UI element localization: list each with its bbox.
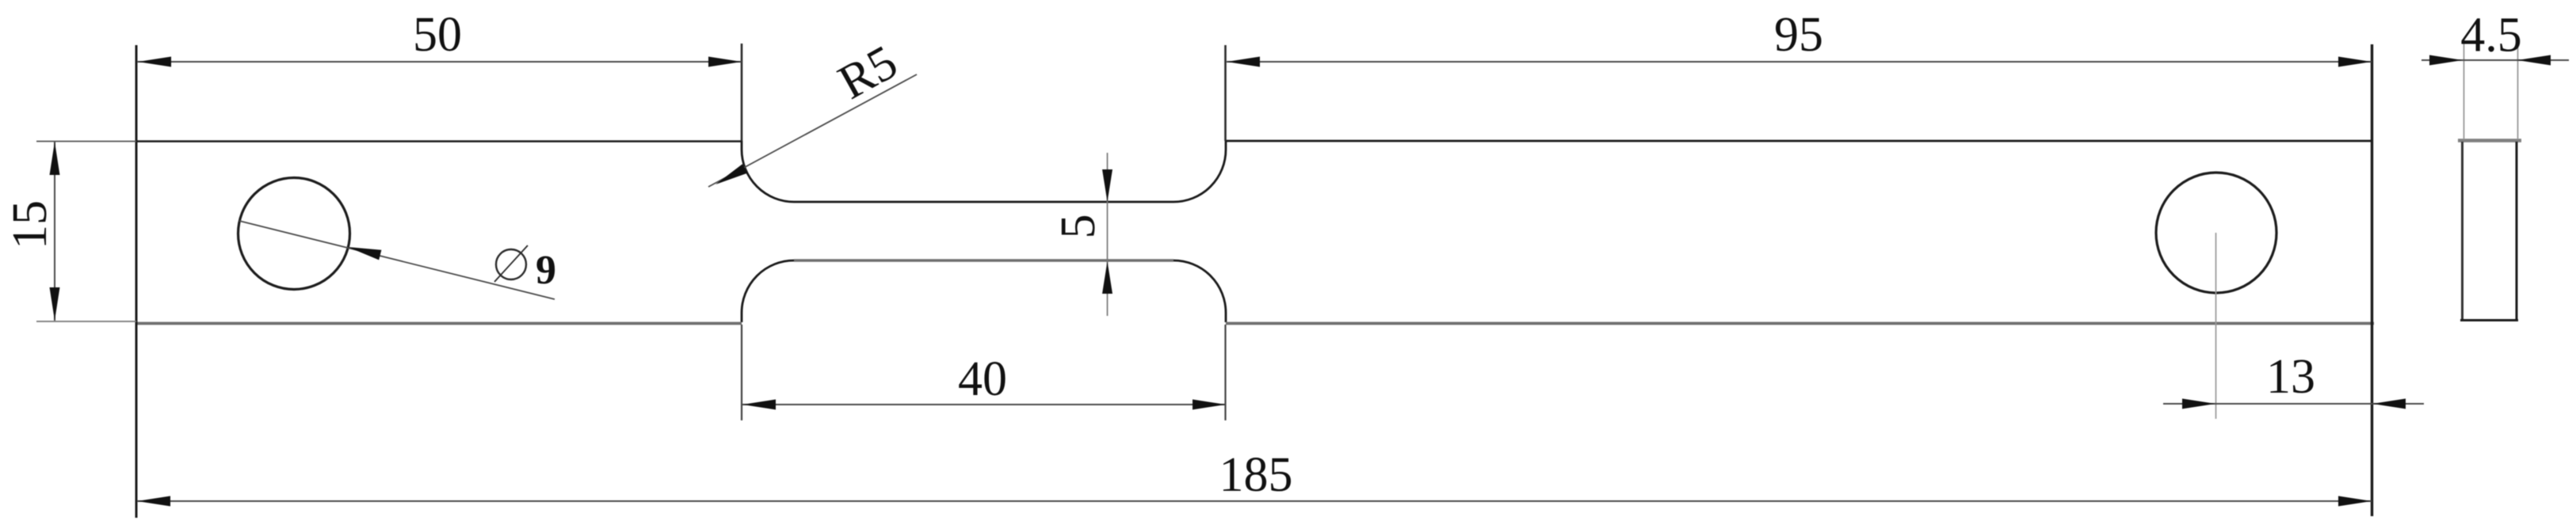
extension line at x=1547 below part (1224, 325, 1226, 420)
arrow 4.5 right (points left) (2517, 55, 2551, 66)
svg-text:50: 50 (413, 8, 462, 62)
arrow 95 right (2338, 57, 2372, 67)
svg-text:15: 15 (3, 200, 57, 249)
extension line at x=1547 above part (1224, 45, 1227, 141)
leader line R5 (708, 74, 917, 187)
hole D9 left circle (239, 178, 350, 290)
dimension line 40 (742, 404, 1226, 405)
dimension line 185 (137, 500, 2372, 502)
dimension line 4.5 (2421, 59, 2569, 61)
side view: left edge (2461, 142, 2463, 321)
label D9: diameter symbol circle (496, 249, 526, 279)
svg-text:4.5: 4.5 (2460, 9, 2522, 63)
dimension line 15 (54, 142, 55, 321)
arrow 50 left (138, 57, 171, 67)
hole right circle (2156, 173, 2276, 293)
part outline: top edge left section (136, 140, 742, 142)
arrow D9 (tip at circle edge) (348, 247, 381, 260)
arrow 13 right (points left, tip at right edge) (2372, 399, 2406, 409)
leader line D9 (239, 221, 555, 299)
part outline: right edge with extension lines (2371, 44, 2373, 516)
svg-text:9: 9 (536, 248, 556, 293)
arrow 4.5 left (points right) (2429, 55, 2463, 66)
svg-text:13: 13 (2266, 350, 2315, 404)
dimension arrows 5 (1102, 169, 1112, 202)
arrow 95 left (1227, 57, 1260, 67)
extension line for 15 top (36, 141, 136, 142)
arrow 15 down (50, 287, 60, 321)
extension line for 5 dim (1107, 153, 1109, 316)
centerline of right hole (2215, 233, 2217, 419)
extension line for 15 bottom (36, 321, 136, 322)
part outline: bottom-right fillet (1174, 260, 1226, 322)
svg-text:5: 5 (1051, 215, 1105, 239)
svg-text:95: 95 (1774, 8, 1823, 62)
part outline: bottom-left fillet (742, 260, 794, 322)
arrow R5 (tip toward fillet) (716, 164, 747, 184)
svg-text:40: 40 (958, 352, 1007, 406)
extension line 4.5 left (2463, 41, 2465, 139)
part outline: gauge bottom line (gray) (794, 259, 1174, 261)
arrow 13 left (points right, tip at centerline) (2182, 399, 2215, 409)
dimension line 13 (2163, 403, 2424, 405)
extension line at x=936 above part (741, 44, 743, 141)
dimension line 95 (1227, 61, 2372, 63)
side view: right edge (2516, 142, 2518, 321)
part outline: left shoulder, gauge top line, right shoulder, top edge right section (742, 141, 2372, 202)
arrow 185 left (137, 496, 170, 507)
extension line at x=936 below part (741, 325, 742, 420)
dimension line 50 (137, 61, 742, 63)
part outline: bottom edge right section (gray) (1226, 322, 2374, 325)
part outline: left edge with extension lines (135, 45, 138, 518)
side view: bottom edge (2460, 319, 2518, 321)
part outline: bottom edge left section (gray) (136, 322, 742, 325)
arrow 40 right (1193, 400, 1226, 410)
label D9: diameter symbol slash (494, 245, 528, 282)
side view: top edge (gray thick) (2458, 139, 2521, 142)
arrow 50 right (708, 57, 742, 67)
extension line 4.5 right (2517, 41, 2519, 139)
svg-text:185: 185 (1219, 448, 1293, 502)
arrow 15 up (50, 142, 60, 175)
arrow 185 right (2338, 496, 2372, 507)
arrow 40 left (742, 400, 776, 410)
